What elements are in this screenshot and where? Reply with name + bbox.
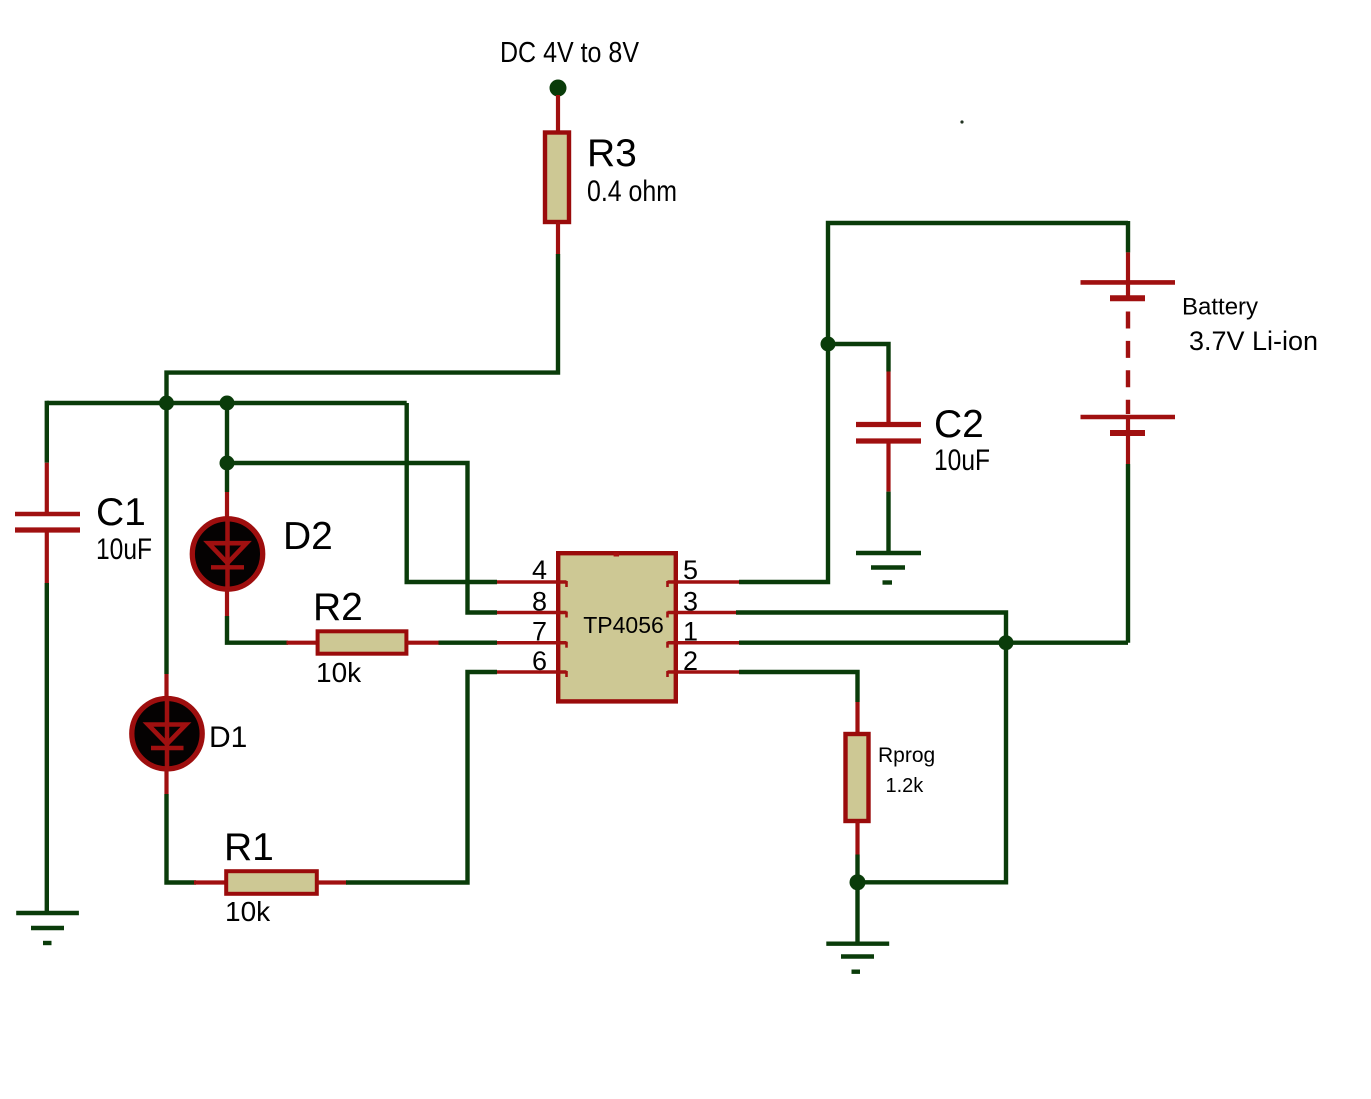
svg-text:D2: D2 xyxy=(283,515,333,558)
wire: junction down toward D2 xyxy=(225,403,229,463)
junction node D2/pin8 xyxy=(220,456,235,471)
svg-text:Battery: Battery xyxy=(1182,294,1258,321)
wire: Rprog to ground junction xyxy=(855,855,859,883)
wire: top rail xyxy=(47,401,407,405)
svg-text:DC 4V to 8V: DC 4V to 8V xyxy=(500,37,639,69)
svg-text:Li-ion: Li-ion xyxy=(1252,326,1318,356)
resistor R3 xyxy=(545,133,569,223)
junction node C2 tap xyxy=(821,337,836,352)
wire: R2 to pin 7 xyxy=(439,641,498,645)
svg-text:1: 1 xyxy=(683,617,698,647)
svg-text:7: 7 xyxy=(532,617,547,647)
junction node rail/D2 column xyxy=(220,396,235,411)
svg-text:2: 2 xyxy=(683,646,698,676)
wire: junction down to Rprog bottom xyxy=(858,643,1007,883)
battery top lead (green) xyxy=(1126,221,1130,252)
wire: DC input to R3 top (red lead) xyxy=(556,95,560,133)
LED D1 xyxy=(132,699,202,769)
svg-text:D1: D1 xyxy=(209,721,247,754)
IC pin 8 stub xyxy=(497,612,567,618)
battery cell 1 lead (red) xyxy=(1126,252,1130,296)
LED D2 xyxy=(192,519,262,589)
svg-text:10uF: 10uF xyxy=(96,533,152,566)
capacitor C2 bottom lead (red) xyxy=(886,442,890,492)
junction node BAT/pin3/pin1 xyxy=(999,635,1014,650)
resistor Rprog bottom lead (red) xyxy=(855,821,859,855)
svg-text:3: 3 xyxy=(683,587,698,617)
svg-text:8: 8 xyxy=(532,587,547,617)
wire: junction to D2 top xyxy=(225,463,229,492)
battery BAT1 xyxy=(1081,282,1176,464)
ground (Rprog) xyxy=(826,944,889,972)
resistor Rprog top lead (red) xyxy=(855,702,859,734)
wire: D1 to R1 row xyxy=(167,794,197,883)
wire: pin 1 to battery bottom xyxy=(739,641,1128,645)
IC pin 6 stub xyxy=(497,671,567,677)
resistor R2 left lead (red) xyxy=(287,641,318,645)
resistor R2 xyxy=(318,631,407,653)
wire: rail down to C1 xyxy=(45,401,49,463)
svg-text:5: 5 xyxy=(683,555,698,585)
junction node Rprog/ground xyxy=(850,874,866,890)
capacitor C2 top lead (red) xyxy=(886,372,890,423)
IC pin 4 stub xyxy=(497,581,567,587)
svg-text:3.7V: 3.7V xyxy=(1189,326,1245,356)
resistor R1 xyxy=(226,871,317,894)
svg-text:Rprog: Rprog xyxy=(878,744,935,767)
svg-text:C2: C2 xyxy=(934,403,984,446)
capacitor C1 bottom lead (red) xyxy=(45,531,49,583)
ground (C2) xyxy=(856,553,921,583)
svg-text:6: 6 xyxy=(532,646,547,676)
LED D1 cathode lead (red) xyxy=(164,768,168,794)
capacitor C2 xyxy=(856,425,921,442)
node: DC input terminal xyxy=(550,80,567,97)
LED D2 cathode lead (red) xyxy=(225,589,229,617)
svg-text:4: 4 xyxy=(532,555,547,585)
svg-text:C1: C1 xyxy=(96,491,146,534)
wire: pin 2 to Rprog xyxy=(739,672,858,702)
svg-text:R1: R1 xyxy=(224,826,274,869)
resistor R2 right lead (red) xyxy=(407,641,439,645)
IC pin 7 stub xyxy=(497,642,567,648)
stray artifact dot xyxy=(960,120,963,123)
resistor Rprog xyxy=(846,734,869,821)
junction node rail/D1 column xyxy=(159,396,174,411)
svg-text:10k: 10k xyxy=(316,657,362,688)
svg-text:0.4 ohm: 0.4 ohm xyxy=(587,175,677,208)
LED D1 anode lead (red) xyxy=(164,674,168,700)
IC top notch xyxy=(614,553,619,557)
wire: pin 3 to junction xyxy=(736,613,1006,643)
svg-text:10uF: 10uF xyxy=(934,444,990,477)
wire: junction to C2 xyxy=(828,344,889,372)
IC pin 2 stub xyxy=(668,671,740,677)
LED D2 anode lead (red) xyxy=(225,492,229,520)
wire: battery bottom (green) xyxy=(1126,464,1130,643)
wire: R1 to pin 6 xyxy=(346,672,497,883)
capacitor C1 top lead (red) xyxy=(45,463,49,513)
wire: R3 bottom lead (red) xyxy=(556,222,560,255)
IC U1 TP4056 body xyxy=(558,553,676,701)
svg-text:1.2k: 1.2k xyxy=(886,775,925,797)
wire: junction to ground xyxy=(855,882,859,943)
capacitor C1 xyxy=(15,514,80,530)
wire: C1 to ground xyxy=(45,583,49,913)
svg-text:R2: R2 xyxy=(313,586,363,629)
resistor R1 left lead (red) xyxy=(194,880,226,884)
wire: rail down to pin 4 xyxy=(407,403,497,582)
IC pin 3 stub xyxy=(668,612,737,618)
svg-text:R3: R3 xyxy=(587,132,637,175)
wire: D2 to R2 xyxy=(227,616,288,643)
wire: pin 8 net xyxy=(227,463,497,613)
IC pin 5 stub xyxy=(668,581,740,587)
wire: pin 5 to battery top rail xyxy=(739,223,1128,582)
wire: junction down to D1 xyxy=(164,403,168,674)
svg-text:TP4056: TP4056 xyxy=(583,612,664,638)
ground (C1) xyxy=(16,913,79,943)
wire: C2 to ground xyxy=(886,492,890,553)
IC pin 1 stub xyxy=(668,642,740,648)
resistor R1 right lead (red) xyxy=(317,880,347,884)
svg-text:10k: 10k xyxy=(225,896,271,927)
wire: R3 bottom to input rail xyxy=(167,254,559,403)
